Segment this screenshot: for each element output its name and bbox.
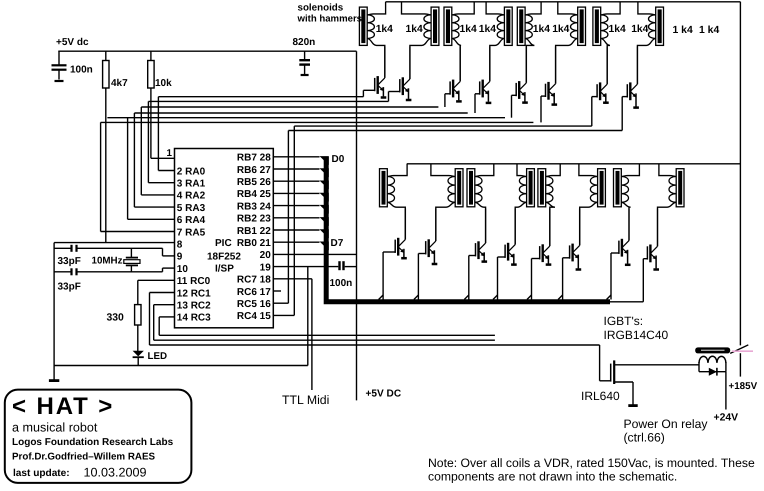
svg-text:RB3 24: RB3 24 [237,201,271,212]
label spare 1k4 a [673,25,693,36]
wire RB2 pin 23 to bus [273,217,329,226]
svg-text:1k4: 1k4 [406,24,423,35]
bus D0-D7 thick [326,157,610,302]
label pin 8 8 [177,240,183,251]
wire RA4 gate line [107,117,505,119]
label pin 10 10 [177,264,189,275]
wire bank2 supply rail [407,163,741,165]
label C5 100n [330,278,353,289]
transistor Q17 IRL640 channel bar [613,360,615,384]
svg-text:6 RA4: 6 RA4 [177,215,206,226]
ground tick C2 [301,74,309,76]
label Power On relay [624,417,709,431]
svg-text:7 RA5: 7 RA5 [177,227,206,238]
svg-text:1k4: 1k4 [631,24,648,35]
label +185V [729,381,758,392]
svg-text:(ctrl.66): (ctrl.66) [624,431,665,445]
svg-text:TTL Midi: TTL Midi [282,393,329,407]
wire pin 11 RC0 to R3 [138,280,175,304]
label R2 10k [155,78,172,89]
svg-text:330: 330 [107,313,125,324]
label pin 24 RB3 24 [237,201,271,212]
svg-text:820n: 820n [293,37,316,48]
label last update [13,468,70,479]
svg-text:33pF: 33pF [58,282,81,293]
label pin 11 11 RC0 [177,276,211,287]
wire RB6 pin 27 to bus [273,168,329,177]
label D7 [331,238,344,249]
wire RC4 gate line [294,125,592,127]
solenoid coil L7 with hammer bar [593,2,620,47]
svg-text:20: 20 [260,250,272,261]
transistor Q16 [647,209,659,270]
transistor Q7 [592,47,609,127]
transistor Q15 [607,209,631,300]
wire RB5 pin 26 to bus [273,181,329,190]
label L4 1k4 [479,24,496,35]
wire relay to +24V [725,372,727,410]
svg-text:Note: Over all coils a VDR, ra: Note: Over all coils a VDR, rated 150Vac… [428,456,755,470]
wire RA2 drop to pin 4 [141,107,174,195]
diode D2 flyback [709,368,717,376]
label U1 18F252 [207,252,241,263]
svg-text:+185V: +185V [729,381,758,392]
wire ground return [54,365,308,367]
solenoid coil L10 [431,164,463,209]
svg-text:3 RA1: 3 RA1 [177,179,206,190]
label +24V [714,413,739,424]
transistor Q17 IRL640 gate bar [610,364,612,382]
wire RA4 drop to pin 6 [128,118,175,220]
label R1 4k7 [111,78,128,89]
label pin 2 2 RA0 [177,166,206,177]
wire pin 19 ground drop [307,267,309,366]
wire RB7 pin 28 to bus [273,156,329,165]
capacitor C4 33pF plates [72,268,77,275]
svg-text:components are not drawn into: components are not drawn into the schema… [428,470,677,484]
svg-text:1: 1 [167,148,173,159]
label R3 330 [107,313,125,324]
resistor R3 330 body [135,305,141,325]
label C4 33pF [58,282,81,293]
resistor R3 lead to LED [137,325,139,351]
label Prof.Dr.Godfried-Willem RAES [12,452,156,463]
label solenoids [298,3,344,14]
svg-text:IRL640: IRL640 [581,389,620,403]
resistor R2 10k bottom lead [150,88,152,158]
svg-text:100n: 100n [330,278,353,289]
label LED [148,351,168,362]
wire left ground rail [53,243,55,380]
svg-text:RC5 16: RC5 16 [237,299,271,310]
IC U1 PIC18F252 body [175,149,274,328]
label pin 17 RC6 17 [237,287,271,298]
wire pin 17 RC6 stub [273,290,281,292]
wire Q16 gate from bus tail [643,258,647,260]
ground symbol Q17 [628,404,637,407]
transistor Q6 [541,47,557,123]
label pin 5 5 RA3 [177,203,206,214]
label +5V dc [56,37,89,48]
relay K1 contact bar [695,347,730,353]
label pin 9 9 [177,252,183,263]
solenoid coil L11 [467,164,494,209]
label IGBT's: [604,314,644,328]
svg-text:+24V: +24V [714,413,739,424]
wire right supply border [739,2,741,377]
svg-text:1k4: 1k4 [376,24,393,35]
solenoid coil L2 with hammer bar [402,2,439,47]
label Logos Foundation Research Labs [12,437,174,448]
wire pin 1 MCLR stub [151,157,175,159]
svg-text:RC6 17: RC6 17 [237,287,271,298]
wire RB0 pin 21 to bus [273,242,329,251]
transistor Q12 [493,209,517,300]
wire RB3 pin 24 to bus [273,205,329,214]
label pin 3 3 RA1 [177,179,206,190]
label L3 1k4 [460,24,477,35]
wire RC2 line [154,305,495,341]
wire pin 10 lower 33pF wire [54,268,174,272]
relay K1 coil [699,356,726,371]
transistor Q5 [512,47,528,118]
svg-text:33pF: 33pF [58,256,81,267]
svg-text:1k4: 1k4 [460,24,477,35]
svg-text:RB6 27: RB6 27 [237,165,271,176]
svg-text:1k4: 1k4 [552,24,569,35]
capacitor C1 100n leads [58,51,60,79]
wire RC3 line [159,317,495,335]
svg-text:+5V dc: +5V dc [56,37,89,48]
label pin 18 RC7 18 [237,275,271,286]
svg-text:IGBT's:: IGBT's: [604,314,644,328]
svg-text:11 RC0: 11 RC0 [177,276,211,287]
svg-text:RB2 23: RB2 23 [237,214,271,225]
wire RC4 vertical from pin 15 [273,126,294,315]
wire +5V rail [58,50,356,52]
svg-text:RB7 28: RB7 28 [237,153,271,164]
solenoid coil L3 with hammer bar [444,2,474,47]
wire top supply rail [386,1,741,3]
svg-text:PIC: PIC [215,238,232,249]
wire RA2 gate line [141,106,438,108]
svg-text:Power On relay: Power On relay [624,417,709,431]
transistor Q1 [363,47,386,98]
wire pink switch line [732,350,753,352]
label a musical robot [12,421,98,435]
resistor R1 4k7 body [103,61,109,89]
capacitor C2 820n lead [304,51,306,59]
solenoid coil L6 with hammer bar [556,2,586,47]
transistor Q3 [445,47,462,108]
svg-text:RB4 25: RB4 25 [237,189,271,200]
svg-text:19: 19 [260,262,272,273]
label U1 I/SP [215,264,234,275]
svg-text:4k7: 4k7 [111,78,128,89]
LED D1 [133,351,144,357]
svg-text:IRGB14C40: IRGB14C40 [604,328,669,342]
label C3 33pF [58,256,81,267]
solenoid coil L13 [538,164,560,209]
svg-text:12 RC1: 12 RC1 [177,288,211,299]
label < HAT > [12,393,114,420]
solenoid coil L1 with hammer bar [359,2,385,47]
HAT title box [5,390,192,483]
ground tick C1 [55,80,64,82]
transistor Q8 [622,47,639,131]
wire RC1 line to IRL640 gate [150,293,611,381]
label IRL640 [581,389,620,403]
label L8 1k4 [631,24,648,35]
wire pin 9 upper 33pF wire [54,248,174,256]
label note line 2 [428,470,677,484]
wire Q17 source to ground [614,382,633,405]
svg-text:RC7 18: RC7 18 [237,275,271,286]
label pin 19 19 [260,262,272,273]
transistor Q14 [558,209,581,300]
label L6 1k4 [552,24,569,35]
wire LED to ground [137,357,139,365]
label pin 26 RB5 26 [237,177,271,188]
wire RA0 drop to pin 2 [158,97,174,171]
label C2 820n [293,37,316,48]
ground symbol left rail [49,379,59,382]
solenoid coil L16 [658,164,685,209]
capacitor C2 820n bottom lead [304,65,306,74]
label pin 14 14 RC3 [177,313,211,324]
svg-text:1k4: 1k4 [533,24,550,35]
crystal X1 plates [126,258,138,266]
svg-text:RB5 26: RB5 26 [237,177,271,188]
svg-text:+5V DC: +5V DC [366,389,402,400]
solenoid coil L9 [380,164,408,209]
label pin 4 4 RA2 [177,191,206,202]
label pin 23 RB2 23 [237,214,271,225]
svg-text:1 k4: 1 k4 [673,25,693,36]
label pin 6 6 RA4 [177,215,206,226]
svg-text:18F252: 18F252 [207,252,241,263]
transistor Q4 [475,47,491,114]
label spare 1k4 b [699,25,719,36]
wire RA1 gate line [148,100,388,102]
transistor Q13 [527,209,551,300]
label pin 21 RB0 21 [237,238,271,249]
label pin 22 RB1 22 [237,226,271,237]
svg-text:with hammers: with hammers [297,14,363,25]
label pin 28 RB7 28 [237,153,271,164]
crystal X1 body [124,260,140,264]
wire pin 18 RC7 TTL Midi [273,279,312,390]
wire RA1 drop to pin 3 [148,101,174,182]
wire RC5 vertical from pin 16 [273,131,288,304]
label C1 100n [70,65,93,76]
wire pin 8 to rail [54,242,174,244]
wire RB4 pin 25 to bus [273,193,329,202]
capacitor C5 100n plates [340,261,344,270]
transistor Q10 [414,209,437,300]
svg-text:100n: 100n [70,65,93,76]
label L5 1k4 [533,24,550,35]
solenoid coil L15 [614,164,640,209]
label 10.03.2009 [84,466,147,480]
solenoid coil L12 [515,164,534,209]
wire pin 20 Vdd to +5V [273,253,356,255]
svg-text:4 RA2: 4 RA2 [177,191,206,202]
svg-text:10: 10 [177,264,189,275]
svg-text:D0: D0 [332,154,345,165]
label X1 10MHz [92,256,123,267]
svg-text:LED: LED [148,351,168,362]
solenoid coil L8 with hammer bar [637,2,663,47]
switch blade +185V [730,345,748,354]
wire RA3 drop to pin 5 [134,113,174,207]
resistor R1 4k7 bottom lead [105,88,107,243]
wire RA5 drop to pin 7 [101,122,175,231]
label L2 1k4 [406,24,423,35]
transistor Q9 [379,209,407,300]
svg-text:RB1 22: RB1 22 [237,226,271,237]
bus thin tail to Q16 gate [610,259,643,302]
label pin 16 RC5 16 [237,299,271,310]
svg-text:13 RC2: 13 RC2 [177,301,211,312]
capacitor C2 820n plates [299,60,310,64]
svg-text:9: 9 [177,252,183,263]
wire pin 19 Vss to cap [273,266,356,268]
svg-text:14 RC3: 14 RC3 [177,313,211,324]
label with hammers [297,14,363,25]
solenoid coil L5 with hammer bar [517,2,541,47]
svg-text:D7: D7 [331,238,344,249]
svg-text:10k: 10k [155,78,172,89]
label L1 1k4 [376,24,393,35]
svg-text:10.03.2009: 10.03.2009 [84,466,147,480]
svg-text:5 RA3: 5 RA3 [177,203,206,214]
label pin 13 13 RC2 [177,301,211,312]
solenoid coil L4 with hammer bar [486,2,512,47]
svg-text:1k4: 1k4 [479,24,496,35]
svg-text:8: 8 [177,240,183,251]
label U1 PIC [215,238,232,249]
resistor R2 10k top lead [150,51,152,60]
label pin 12 12 RC1 [177,288,211,299]
svg-text:1k4: 1k4 [609,24,626,35]
label pin 27 RB6 27 [237,165,271,176]
resistor R2 10k body [148,61,154,89]
svg-text:Logos Foundation Research Labs: Logos Foundation Research Labs [12,437,174,448]
svg-text:a musical robot: a musical robot [12,421,98,435]
svg-text:RC4 15: RC4 15 [237,311,271,322]
svg-text:1 k4: 1 k4 [699,25,719,36]
label IRGB14C40 [604,328,669,342]
label TTL Midi [282,393,329,407]
label pin 7 7 RA5 [177,227,206,238]
svg-text:10MHz: 10MHz [92,256,123,267]
capacitor C3 33pF plates [72,245,77,252]
label +5V DC [366,389,402,400]
label pin 25 RB4 25 [237,189,271,200]
svg-text:RB0 21: RB0 21 [237,238,271,249]
capacitor C1 100n plates [52,65,67,69]
label pin 15 RC4 15 [237,311,271,322]
solenoid coil L14 [579,164,605,209]
svg-text:Prof.Dr.Godfried–Willem RAES: Prof.Dr.Godfried–Willem RAES [12,452,156,463]
svg-text:solenoids: solenoids [298,3,344,14]
label note line 1 [428,456,755,470]
label (ctrl.66) [624,431,665,445]
wire RC5 gate line [288,130,622,132]
transistor Q11 [464,209,487,300]
label pin 20 20 [260,250,272,261]
transistor Q2 [389,47,412,102]
resistor R1 4k7 top lead [105,51,107,60]
svg-text:< HAT >: < HAT > [12,393,114,420]
wire +5V vertical to PIC and +5V DC [356,51,358,400]
label L7 1k4 [609,24,626,35]
wire RB1 pin 22 to bus [273,229,329,238]
wire RA3 gate line [134,112,467,114]
label D0 [332,154,345,165]
svg-text:last update:: last update: [13,468,70,479]
wire Q17 drain to relay [614,364,699,366]
label pin 1 [167,148,173,159]
crystal X1 leads [130,248,132,271]
wire RA5 gate line [101,121,534,123]
svg-text:2 RA0: 2 RA0 [177,166,206,177]
wire RA0 gate line [158,96,363,98]
svg-text:I/SP: I/SP [215,264,234,275]
